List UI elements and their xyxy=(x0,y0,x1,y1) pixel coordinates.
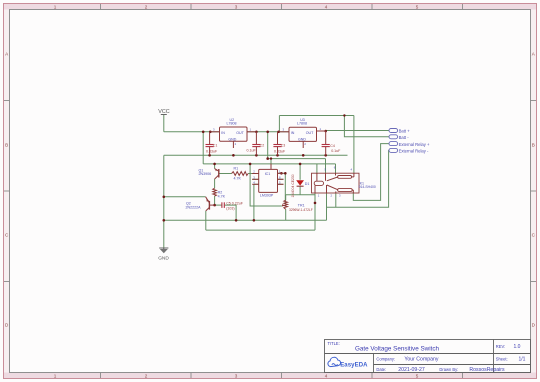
node coil- junction xyxy=(314,202,317,205)
svg-text:0.1uF: 0.1uF xyxy=(247,149,257,153)
svg-text:D1: D1 xyxy=(305,182,310,186)
svg-text:2N3906: 2N3906 xyxy=(199,172,212,176)
wire 8V horizontal y=158.6 xyxy=(268,158,326,160)
svg-text:1/1: 1/1 xyxy=(519,357,526,363)
node IC1 out b xyxy=(284,172,287,175)
wire IC1 out right dots xyxy=(278,172,286,174)
wire VCC horizontal to U2 IN xyxy=(164,131,220,133)
capacitor C4 xyxy=(322,131,342,155)
frame ticks top xyxy=(101,4,463,10)
svg-text:1.0: 1.0 xyxy=(514,344,521,350)
flag External Relay - xyxy=(389,148,429,153)
svg-text:5: 5 xyxy=(416,373,419,378)
svg-text:3296W-1-472LF: 3296W-1-472LF xyxy=(289,208,313,212)
op-amp IC1 LM393P xyxy=(252,164,283,198)
svg-text:1: 1 xyxy=(54,373,57,378)
transistor Q1 2N3906 xyxy=(199,168,219,179)
svg-text:Your Company: Your Company xyxy=(404,357,439,363)
svg-text:2: 2 xyxy=(145,4,148,9)
frame row letters xyxy=(5,52,536,328)
node C5 bottom xyxy=(235,219,238,222)
frame ticks bottom xyxy=(101,373,463,379)
wire D1 cathode riser xyxy=(299,164,301,180)
node C4 bottom xyxy=(324,154,327,157)
svg-text:2021-09-27: 2021-09-27 xyxy=(398,367,425,373)
node VCC/rawVCC junction xyxy=(202,131,205,134)
wire GND top rail y=155.3 xyxy=(164,154,348,156)
resistor R2 xyxy=(213,188,226,198)
svg-text:TITLE:: TITLE: xyxy=(328,341,340,346)
node IC1 V+ tap xyxy=(270,157,272,159)
wire 8V drop at x=267.7 xyxy=(267,132,269,159)
svg-text:GND: GND xyxy=(298,138,306,142)
node U3 OUT / C4 xyxy=(324,130,327,133)
wire GND bottom rail y=220.3 xyxy=(164,219,327,221)
frame column numbers xyxy=(54,4,419,378)
wire base node to C5 xyxy=(215,204,222,206)
svg-text:GND: GND xyxy=(158,256,169,262)
svg-text:0.1uF: 0.1uF xyxy=(331,149,341,153)
capacitor C3 xyxy=(273,132,286,156)
svg-text:TR1: TR1 xyxy=(298,203,305,207)
node C3 bottom xyxy=(276,154,279,157)
VCC symbol xyxy=(158,109,169,115)
wire 8V loop top y=115.5 xyxy=(279,115,354,117)
wire IC1 pin3 stub xyxy=(252,178,259,180)
svg-text:GND: GND xyxy=(228,137,236,141)
wire Ext Relay + leg xyxy=(353,144,389,201)
wire raw VCC drop at x=203.2 xyxy=(202,132,204,164)
svg-text:3: 3 xyxy=(235,4,238,9)
svg-text:External Relay +: External Relay + xyxy=(399,142,430,147)
regulator U2 xyxy=(210,118,256,148)
svg-text:Drawn By:: Drawn By: xyxy=(439,367,458,372)
node U3 GND xyxy=(302,154,305,157)
wire C5 to GND rail xyxy=(225,205,236,220)
svg-text:OUT: OUT xyxy=(306,131,314,135)
wire Q1 base to R1 xyxy=(219,173,232,175)
diode D1 1N4004 xyxy=(291,174,310,197)
svg-text:Company:: Company: xyxy=(376,356,395,361)
wire IC1 V+ riser xyxy=(270,159,272,170)
svg-text:C1: C1 xyxy=(213,144,218,148)
wire TR1 top lead xyxy=(285,195,287,200)
svg-text:RossosRepairs: RossosRepairs xyxy=(469,367,505,373)
ground xyxy=(159,248,168,253)
wire relay coil- lead xyxy=(314,193,316,203)
wire 8V loop left leg xyxy=(278,116,280,132)
wire IC1 out down to wiper xyxy=(284,173,286,203)
svg-text:EasyEDA: EasyEDA xyxy=(340,363,368,369)
node Q1 emitter on VCC line xyxy=(213,163,216,166)
svg-text:4: 4 xyxy=(325,373,328,378)
node GND rail left xyxy=(163,219,166,222)
node C1 top xyxy=(209,131,212,134)
svg-text:Batt -: Batt - xyxy=(399,135,410,140)
wire VCC to wiper column xyxy=(250,164,282,206)
node C3/loop top xyxy=(277,131,280,134)
svg-text:R1: R1 xyxy=(234,166,239,170)
wire U2 OUT to U3 IN y=131.8 xyxy=(247,131,289,133)
svg-text:IC1: IC1 xyxy=(265,172,271,176)
wire VCC vertical drop xyxy=(163,115,165,132)
svg-text:914-SH400: 914-SH400 xyxy=(359,185,376,189)
wire TR1 bottom to GND rail xyxy=(285,209,287,220)
node 8V corner xyxy=(266,157,269,160)
wire IC1 pin4 to GND rail xyxy=(254,184,259,220)
svg-text:Gate Voltage Sensitive Switch: Gate Voltage Sensitive Switch xyxy=(355,345,440,352)
wire IC1 right stub3 xyxy=(278,183,284,185)
frame ticks right xyxy=(531,101,537,282)
svg-text:1N4004 CE230: 1N4004 CE230 xyxy=(291,174,295,197)
svg-text:L7808: L7808 xyxy=(297,122,307,126)
svg-text:2: 2 xyxy=(145,373,148,378)
node C1 bottom xyxy=(208,154,211,157)
wire Ext Relay - leg xyxy=(327,150,390,207)
node 8V drop xyxy=(266,131,269,134)
node C2 top xyxy=(255,131,258,134)
svg-text:Batt +: Batt + xyxy=(399,129,411,134)
wire U3 OUT to Batt+ flag xyxy=(317,130,390,133)
relay K1 xyxy=(312,165,376,197)
node Q2 emitter GND tap xyxy=(163,196,166,199)
svg-text:B: B xyxy=(532,143,535,148)
wire Q2 collector drop xyxy=(205,211,207,230)
EasyEDA logo xyxy=(328,357,368,368)
wire raw VCC horizontal y=163.9 xyxy=(203,163,335,165)
svg-text:5: 5 xyxy=(416,4,419,9)
capacitor C1 xyxy=(206,132,218,156)
flag Batt + xyxy=(389,129,410,134)
svg-text:Date:: Date: xyxy=(376,367,386,372)
regulator U3 xyxy=(279,118,326,148)
svg-text:(103): (103) xyxy=(226,207,234,211)
frame ticks left xyxy=(4,101,10,282)
resistor R1 xyxy=(232,166,249,180)
wire relay pin8 drop from 8V line xyxy=(325,159,327,174)
wire 8V loop right leg to relay pin6 xyxy=(353,116,355,174)
svg-text:4.7K: 4.7K xyxy=(234,177,242,181)
transistor Q2 2N2222A xyxy=(186,197,215,211)
wire Q2 emitter feed from GND xyxy=(164,196,206,198)
svg-text:IN: IN xyxy=(221,131,225,135)
wire IC1 right stub2 xyxy=(278,178,284,180)
svg-text:1: 1 xyxy=(54,4,57,9)
wire R1 to IC1 pin xyxy=(248,173,259,175)
svg-text:C4: C4 xyxy=(330,144,335,148)
flag Batt - xyxy=(389,135,409,140)
wire relay pin7 drop from VCC line xyxy=(335,164,337,173)
node Batt- loop tap xyxy=(343,114,345,116)
svg-text:C5 0.22uF: C5 0.22uF xyxy=(226,202,244,206)
svg-text:B: B xyxy=(5,143,8,148)
svg-text:IN: IN xyxy=(291,131,295,135)
node IC1 gnd on rail xyxy=(253,219,256,222)
wire D1 anode drop xyxy=(299,186,301,194)
svg-text:C3: C3 xyxy=(281,144,286,148)
wire Batt- leg xyxy=(344,116,389,137)
frame band fills xyxy=(4,4,536,10)
trimmer TR1 xyxy=(282,200,313,212)
svg-text:0.33uF: 0.33uF xyxy=(274,149,286,153)
wire GND left rail xyxy=(163,155,165,248)
capacitor C5 xyxy=(222,202,244,211)
svg-text:4.7K: 4.7K xyxy=(218,194,226,198)
wire coil+ drop from VCC line xyxy=(316,164,318,174)
svg-text:LM393P: LM393P xyxy=(260,194,274,198)
node C2 bottom xyxy=(255,154,258,157)
svg-text:External Relay -: External Relay - xyxy=(399,149,429,154)
node IC1 out a xyxy=(280,172,283,175)
wire Q1 collector to R2 xyxy=(214,179,216,188)
svg-text:L7808: L7808 xyxy=(227,122,237,126)
capacitor C2 xyxy=(247,132,265,156)
wire R2 bottom to base node xyxy=(214,196,216,205)
svg-text:OUT: OUT xyxy=(236,131,244,135)
wire relay pin9 to GND rail xyxy=(326,193,328,220)
node D1 top on VCC line xyxy=(299,163,302,166)
svg-text:0.33uF: 0.33uF xyxy=(206,149,218,153)
wire TR1 top to coil- node y=194.8 xyxy=(286,195,315,230)
svg-text:2N2222A: 2N2222A xyxy=(186,205,202,209)
node wiper riser on VCC line xyxy=(249,163,252,166)
node base node xyxy=(213,204,216,207)
svg-text:Sheet:: Sheet: xyxy=(496,356,508,361)
flag External Relay + xyxy=(389,142,430,147)
wire Q1 emitter from VCC line xyxy=(214,164,216,169)
svg-text:C2: C2 xyxy=(260,144,265,148)
svg-text:REV:: REV: xyxy=(496,344,505,349)
node U2 GND xyxy=(232,154,235,157)
wire rail B (Q2 collector / coil-) y=230.1 xyxy=(206,229,315,231)
svg-text:3: 3 xyxy=(235,373,238,378)
svg-text:4: 4 xyxy=(325,4,328,9)
